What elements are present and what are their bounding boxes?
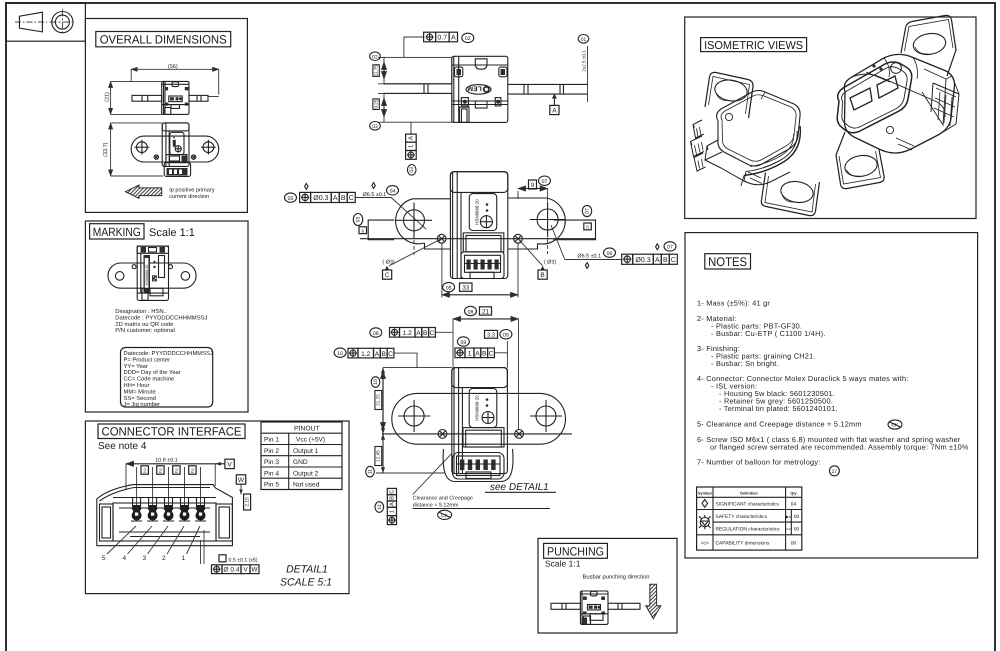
svg-text:C: C [671,257,676,264]
svg-text:Pin 4: Pin 4 [264,470,279,477]
svg-text:REGULATION characteristics: REGULATION characteristics [716,527,781,533]
svg-text:C: C [389,490,396,494]
svg-text:00: 00 [791,541,797,547]
svg-text:or flanged screw serrated are: or flanged screw serrated are recommende… [710,443,969,452]
svg-text:( Ø3): ( Ø3) [382,260,394,266]
svg-text:2: 2 [159,468,162,475]
svg-text:05: 05 [446,285,452,291]
svg-text:HSN8888-20: HSN8888-20 [475,199,480,225]
svg-text:B: B [540,272,544,279]
svg-text:Pin 3: Pin 3 [264,459,279,466]
svg-text:B: B [423,330,428,337]
svg-text:Scale 1:1: Scale 1:1 [149,227,195,239]
svg-text:0.7: 0.7 [437,35,447,42]
svg-text:2: 2 [191,468,194,475]
svg-text:HH= Hour: HH= Hour [124,383,150,389]
svg-text:10: 10 [337,351,343,357]
svg-text:▶=: ▶= [786,514,792,519]
svg-text:Pin 2: Pin 2 [264,448,279,455]
svg-text:DDD= Day of the Year: DDD= Day of the Year [124,369,181,376]
svg-text:1: 1 [182,555,186,562]
svg-text:04: 04 [791,501,797,507]
svg-text:Scale 1:1: Scale 1:1 [545,559,581,569]
svg-text:Ø0.3: Ø0.3 [635,256,650,264]
svg-text:9.25: 9.25 [373,99,378,108]
svg-text:>=: >= [786,527,791,532]
svg-text:06: 06 [607,251,613,257]
svg-text:J= Jig number: J= Jig number [124,401,161,408]
svg-text:Ø6.5 ±0.1: Ø6.5 ±0.1 [363,192,387,198]
svg-text:A: A [655,257,660,264]
svg-text:P/N customer: optional: P/N customer: optional [115,327,175,334]
svg-text:Busbar punching direction: Busbar punching direction [583,574,650,581]
svg-text:A: A [416,330,421,337]
svg-text:03: 03 [409,167,415,173]
svg-text:33: 33 [462,285,470,292]
svg-text:PUNCHING: PUNCHING [547,544,604,558]
svg-text:Ø6.5 ±0.1: Ø6.5 ±0.1 [577,254,601,260]
svg-text:09: 09 [503,333,509,339]
svg-text:0.5 ±0.1 (x5): 0.5 ±0.1 (x5) [229,557,258,563]
svg-text:C: C [430,330,435,337]
svg-text:MM= Minute: MM= Minute [124,388,156,395]
svg-text:Ø0.3: Ø0.3 [313,194,328,202]
svg-text:V: V [243,567,248,574]
svg-text:Ø 0.4: Ø 0.4 [224,567,240,574]
svg-text:ISOMETRIC VIEWS: ISOMETRIC VIEWS [704,40,803,52]
svg-text:1: 1 [468,351,472,358]
svg-text:Output 2: Output 2 [293,470,319,477]
svg-text:Definition: Definition [740,492,758,496]
svg-text:3.3: 3.3 [487,332,495,339]
svg-text:current direction: current direction [169,193,209,200]
svg-text:1- Mass (±5%): 41 gr: 1- Mass (±5%): 41 gr [697,299,770,308]
svg-text:Qty: Qty [790,492,797,496]
svg-text:Pin 1: Pin 1 [264,437,279,444]
svg-text:A: A [333,195,338,202]
svg-text:- Busbar: Cu-ETP ( C1100 1/4H): - Busbar: Cu-ETP ( C1100 1/4H). [711,329,826,338]
svg-text:SCALE 5:1: SCALE 5:1 [280,577,332,589]
svg-text:2: 2 [143,468,146,475]
svg-text:(33.7): (33.7) [103,142,109,157]
svg-text:2.15: 2.15 [244,497,250,507]
svg-text:07: 07 [542,179,548,185]
svg-text:11.75: 11.75 [373,65,378,77]
svg-text:Not used: Not used [293,482,320,489]
svg-text:07: 07 [584,208,590,214]
svg-text:SAFETY characteristics: SAFETY characteristics [716,514,768,520]
svg-text:- Busbar: Sn bright.: - Busbar: Sn bright. [711,359,779,368]
svg-text:10: 10 [373,379,379,385]
svg-text:1.2: 1.2 [361,351,370,358]
svg-text:02: 02 [465,36,471,42]
svg-text:V: V [227,462,232,469]
svg-text:C: C [489,351,494,358]
svg-text:03: 03 [355,217,361,223]
svg-text:CONNECTOR INTERFACE: CONNECTOR INTERFACE [102,425,242,439]
svg-text:C: C [385,272,390,279]
svg-text:08: 08 [468,309,474,315]
svg-text:21: 21 [482,308,490,315]
svg-text:01: 01 [581,37,587,43]
svg-text:A: A [475,351,480,358]
svg-text:B: B [482,351,487,358]
svg-text:HSN8888-20: HSN8888-20 [145,265,149,286]
svg-text:Datecode : PYYDDDCCHHMMSSJ: Datecode : PYYDDDCCHHMMSSJ [115,314,207,321]
svg-text:Output 1: Output 1 [293,448,319,455]
svg-text:(21): (21) [104,92,110,102]
svg-text:LEM: LEM [467,85,482,92]
svg-text:( Ø3): ( Ø3) [544,260,556,266]
svg-text:PINOUT: PINOUT [294,426,320,433]
svg-text:A: A [390,502,396,506]
svg-text:2D matrix ou QR code: 2D matrix ou QR code [115,321,174,328]
svg-text:B: B [390,496,396,500]
svg-text:05: 05 [288,196,294,202]
svg-text:10.8 ±0.1: 10.8 ±0.1 [155,458,177,464]
svg-text:Ip positive primary: Ip positive primary [169,187,215,194]
svg-text:Datecode: PYYDDDCCHHMMSSJ: Datecode: PYYDDDCCHHMMSSJ [124,350,213,357]
svg-text:A: A [375,351,380,358]
svg-text:B: B [381,351,386,358]
svg-text:02: 02 [372,54,378,60]
svg-text:P= Product center: P= Product center [124,356,171,363]
svg-text:Designation : HSN..: Designation : HSN.. [115,308,167,315]
svg-text:SS= Second: SS= Second [124,395,156,402]
svg-text:5: 5 [102,555,106,562]
svg-text:3: 3 [143,555,147,562]
svg-text:GND: GND [293,459,308,466]
svg-text:Clearance and Creepage: Clearance and Creepage [413,496,473,502]
svg-text:1.2: 1.2 [403,330,412,337]
svg-text:A: A [408,136,415,140]
svg-text:Vcc (+5V): Vcc (+5V) [296,437,325,444]
svg-text:09: 09 [461,340,467,346]
svg-text:Symbol: Symbol [698,492,712,496]
svg-text:2x2.5 ±0.1: 2x2.5 ±0.1 [582,50,587,72]
svg-text:A: A [451,35,456,42]
svg-text:07: 07 [667,245,673,251]
svg-text:- Terminal tin plated: 5601240: - Terminal tin plated: 5601240101. [719,404,838,413]
svg-text:1: 1 [390,510,396,513]
svg-text:Pin 5: Pin 5 [264,482,279,489]
svg-text:00: 00 [794,514,800,520]
svg-text:W: W [238,477,245,484]
svg-text:03: 03 [372,124,378,130]
svg-text:08: 08 [373,331,379,337]
svg-text:11: 11 [367,469,373,474]
svg-text:11: 11 [377,504,383,509]
svg-text:YY= Year: YY= Year [124,364,148,370]
svg-text:W: W [251,567,258,574]
svg-text:distance = 5.12mm: distance = 5.12mm [413,503,459,509]
svg-text:CAPABILITY dimensions: CAPABILITY dimensions [716,541,770,547]
svg-text:B: B [341,195,346,202]
svg-text:CC= Code machine: CC= Code machine [124,376,175,383]
svg-text:5- Clearance and Creepage dis: 5- Clearance and Creepage distance = 5.1… [697,420,862,429]
svg-text:DETAIL1: DETAIL1 [286,564,328,576]
svg-text:<c>: <c> [701,542,709,547]
svg-text:4: 4 [123,555,127,562]
svg-text:7- Number of balloon for metr: 7- Number of balloon for metrology: [697,457,821,466]
svg-text:04: 04 [390,189,396,195]
svg-text:21.25: 21.25 [376,394,381,406]
svg-text:A: A [552,108,557,115]
svg-text:C: C [349,195,354,202]
svg-text:17: 17 [832,469,838,475]
svg-text:NOTES: NOTES [708,255,747,269]
svg-text:B: B [663,257,668,264]
svg-text:2: 2 [162,555,166,562]
svg-text:See note 4: See note 4 [98,441,147,452]
svg-text:see DETAIL1: see DETAIL1 [490,482,549,493]
svg-text:C: C [388,351,393,358]
svg-text:SIGNIFICANT characteristics: SIGNIFICANT characteristics [716,501,780,507]
svg-text:12.45: 12.45 [376,450,381,462]
svg-text:MARKING: MARKING [93,225,141,239]
svg-text:00: 00 [794,527,800,533]
svg-text:2: 2 [175,468,178,475]
svg-text:OVERALL DIMENSIONS: OVERALL DIMENSIONS [100,32,227,46]
svg-text:HSN8888-20: HSN8888-20 [475,395,480,421]
